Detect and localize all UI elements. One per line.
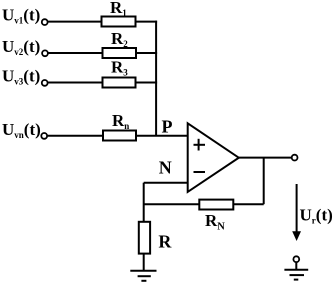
svg-text:P: P xyxy=(162,117,173,137)
svg-text:Ur(t): Ur(t) xyxy=(300,206,333,226)
svg-text:N: N xyxy=(159,158,172,178)
svg-text:RN: RN xyxy=(205,211,225,233)
svg-text:R1: R1 xyxy=(110,0,127,18)
svg-text:Uv3(t): Uv3(t) xyxy=(2,67,40,87)
svg-text:Rn: Rn xyxy=(112,111,129,131)
svg-text:R: R xyxy=(158,231,172,251)
svg-text:Uv1(t): Uv1(t) xyxy=(2,6,40,26)
svg-text:R2: R2 xyxy=(111,29,128,49)
svg-text:Uvn(t): Uvn(t) xyxy=(2,120,41,140)
svg-text:R3: R3 xyxy=(111,57,128,77)
svg-text:Uv2(t): Uv2(t) xyxy=(2,37,40,57)
